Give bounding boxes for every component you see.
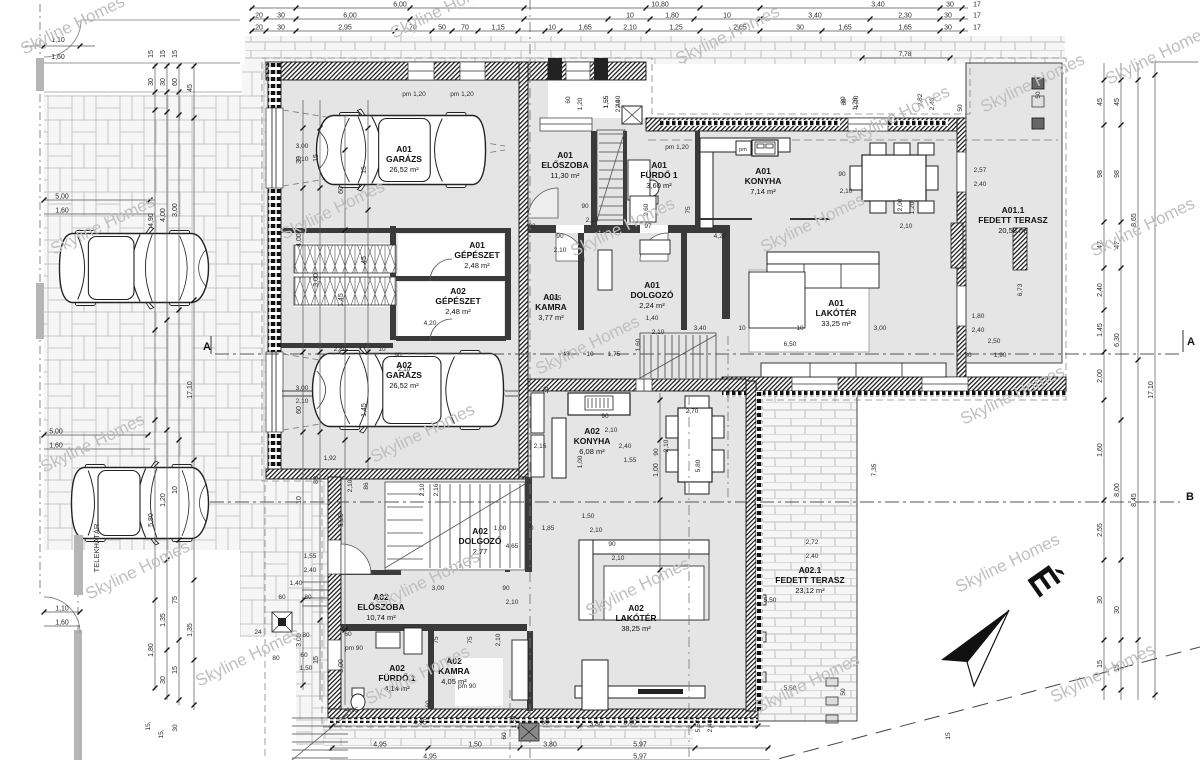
svg-text:15: 15 <box>160 50 167 58</box>
svg-text:1,20: 1,20 <box>160 493 167 507</box>
svg-text:50: 50 <box>957 104 964 112</box>
svg-text:75: 75 <box>685 206 692 214</box>
svg-text:5,80: 5,80 <box>695 459 702 472</box>
svg-text:15: 15 <box>148 50 155 58</box>
svg-text:45: 45 <box>1097 98 1104 106</box>
svg-text:KONYHA: KONYHA <box>745 176 782 186</box>
svg-text:2,50: 2,50 <box>988 338 1001 345</box>
svg-text:1,50: 1,50 <box>582 513 595 520</box>
svg-text:1,55: 1,55 <box>603 95 610 108</box>
svg-text:10,74 m²: 10,74 m² <box>366 613 396 622</box>
svg-text:1,45: 1,45 <box>549 295 562 302</box>
svg-text:26,52 m²: 26,52 m² <box>389 381 419 390</box>
svg-text:30: 30 <box>277 25 285 32</box>
svg-text:90: 90 <box>556 233 564 240</box>
svg-text:1,55: 1,55 <box>624 457 637 464</box>
svg-text:80: 80 <box>272 655 280 662</box>
svg-text:15: 15 <box>172 50 179 58</box>
svg-text:A01: A01 <box>755 166 771 176</box>
svg-text:75: 75 <box>172 596 179 604</box>
svg-text:30: 30 <box>964 352 972 359</box>
svg-text:2,10: 2,10 <box>605 427 618 434</box>
svg-text:5,57: 5,57 <box>695 719 702 732</box>
svg-text:1,50: 1,50 <box>511 715 518 728</box>
svg-text:1,00: 1,00 <box>653 463 660 477</box>
svg-text:1,60: 1,60 <box>635 338 642 351</box>
svg-text:60: 60 <box>565 96 572 104</box>
svg-text:50: 50 <box>1035 91 1042 99</box>
svg-text:2,10: 2,10 <box>554 247 567 254</box>
svg-text:1,65: 1,65 <box>898 25 912 32</box>
svg-text:3,00: 3,00 <box>338 659 345 673</box>
svg-text:A01: A01 <box>469 240 485 250</box>
svg-text:3,00: 3,00 <box>874 325 887 332</box>
svg-text:75: 75 <box>433 636 440 644</box>
svg-text:2,10: 2,10 <box>652 329 665 336</box>
svg-text:2,10: 2,10 <box>495 633 502 646</box>
svg-text:A02: A02 <box>450 286 466 296</box>
svg-text:1,20: 1,20 <box>909 201 916 214</box>
svg-text:1,40: 1,40 <box>646 315 659 322</box>
svg-text:pm 90: pm 90 <box>458 683 476 690</box>
svg-text:5,97: 5,97 <box>633 742 647 749</box>
svg-text:1,00: 1,00 <box>494 525 507 532</box>
svg-text:15: 15 <box>945 732 952 740</box>
svg-text:6,73: 6,73 <box>1017 283 1024 296</box>
svg-text:1,50: 1,50 <box>300 665 313 672</box>
svg-text:2,10: 2,10 <box>296 156 309 163</box>
svg-text:2,40: 2,40 <box>1097 283 1104 297</box>
svg-text:50: 50 <box>438 25 446 32</box>
svg-text:A: A <box>203 341 211 353</box>
svg-text:30: 30 <box>160 676 167 684</box>
svg-text:2,10: 2,10 <box>398 366 411 373</box>
svg-text:KONYHA: KONYHA <box>574 436 611 446</box>
svg-text:FÜRDŐ 1: FÜRDŐ 1 <box>640 169 678 180</box>
svg-text:60: 60 <box>172 78 179 86</box>
svg-text:17: 17 <box>973 25 981 32</box>
svg-text:4,90: 4,90 <box>148 213 155 227</box>
svg-text:80: 80 <box>302 632 310 639</box>
svg-text:1,65: 1,65 <box>578 25 592 32</box>
svg-text:3,00: 3,00 <box>296 143 309 150</box>
svg-text:6,50: 6,50 <box>784 341 797 348</box>
svg-text:8,00: 8,00 <box>1114 483 1121 497</box>
svg-text:30: 30 <box>1114 606 1121 614</box>
svg-text:1,35: 1,35 <box>160 613 167 627</box>
svg-text:1,92: 1,92 <box>324 455 337 462</box>
svg-text:1,55: 1,55 <box>304 553 317 560</box>
svg-text:17: 17 <box>973 13 981 20</box>
svg-text:7,78: 7,78 <box>899 51 912 58</box>
svg-text:1,20: 1,20 <box>577 97 584 110</box>
svg-text:1,45: 1,45 <box>338 293 345 307</box>
svg-text:45: 45 <box>187 84 194 92</box>
svg-text:LAKÓTÉR: LAKÓTÉR <box>615 612 656 623</box>
svg-text:3,80: 3,80 <box>623 720 637 727</box>
svg-text:FEDETT TERASZ: FEDETT TERASZ <box>775 575 844 585</box>
svg-text:30: 30 <box>946 2 954 9</box>
svg-text:30: 30 <box>160 78 167 86</box>
svg-text:A02: A02 <box>472 526 488 536</box>
svg-text:A01: A01 <box>396 144 412 154</box>
svg-text:A01: A01 <box>644 280 660 290</box>
svg-text:2,10: 2,10 <box>419 483 426 496</box>
svg-text:80: 80 <box>304 594 312 601</box>
svg-text:2,10: 2,10 <box>347 479 354 492</box>
svg-text:8,45: 8,45 <box>1131 493 1138 507</box>
svg-text:1,90: 1,90 <box>994 352 1007 359</box>
svg-text:2,10: 2,10 <box>296 398 309 405</box>
svg-text:26,52 m²: 26,52 m² <box>389 165 419 174</box>
svg-text:30: 30 <box>543 386 550 394</box>
svg-text:75: 75 <box>467 636 474 644</box>
svg-text:2,40: 2,40 <box>974 181 987 188</box>
svg-text:A01: A01 <box>557 150 573 160</box>
svg-text:60: 60 <box>541 720 549 727</box>
svg-text:6,08 m²: 6,08 m² <box>579 447 605 456</box>
svg-text:pm 90: pm 90 <box>345 645 363 652</box>
svg-text:A01: A01 <box>651 160 667 170</box>
svg-text:15,: 15, <box>145 721 152 730</box>
svg-text:7,14 m²: 7,14 m² <box>750 187 776 196</box>
svg-text:2,40: 2,40 <box>972 327 985 334</box>
svg-text:2,16: 2,16 <box>433 483 440 496</box>
svg-text:4,65: 4,65 <box>506 543 519 550</box>
svg-text:2,10: 2,10 <box>586 217 599 224</box>
svg-text:2,10: 2,10 <box>900 223 913 230</box>
svg-text:2,10: 2,10 <box>663 439 670 452</box>
svg-text:45: 45 <box>1114 98 1121 106</box>
svg-text:60: 60 <box>344 631 352 638</box>
svg-text:15: 15 <box>313 154 320 162</box>
svg-text:86: 86 <box>363 482 370 490</box>
svg-text:2,10: 2,10 <box>506 599 519 606</box>
svg-text:1,65: 1,65 <box>838 25 852 32</box>
svg-text:38,25 m²: 38,25 m² <box>621 624 651 633</box>
svg-text:90: 90 <box>502 585 510 592</box>
svg-text:4,95: 4,95 <box>413 720 427 727</box>
svg-text:1,25: 1,25 <box>669 25 683 32</box>
svg-text:98: 98 <box>1097 170 1104 178</box>
svg-text:3,00: 3,00 <box>313 273 320 287</box>
svg-text:1,45: 1,45 <box>361 403 368 417</box>
svg-text:4,95: 4,95 <box>346 707 359 714</box>
svg-text:DOLGOZÓ: DOLGOZÓ <box>459 535 502 546</box>
svg-text:B: B <box>1186 491 1194 503</box>
svg-text:20: 20 <box>255 13 263 20</box>
svg-text:ELŐSZOBA: ELŐSZOBA <box>541 159 588 170</box>
svg-text:60: 60 <box>501 732 508 740</box>
svg-text:3,40: 3,40 <box>694 325 707 332</box>
svg-text:10: 10 <box>796 325 804 332</box>
svg-text:30: 30 <box>944 13 952 20</box>
svg-text:60: 60 <box>425 700 432 708</box>
svg-text:10: 10 <box>172 486 179 494</box>
svg-text:3,80: 3,80 <box>590 721 603 728</box>
svg-text:4,95: 4,95 <box>423 754 437 761</box>
svg-text:1,60: 1,60 <box>55 208 69 215</box>
svg-text:60: 60 <box>840 96 847 104</box>
svg-text:90: 90 <box>394 352 402 359</box>
svg-text:3,00: 3,00 <box>172 203 179 217</box>
svg-text:80: 80 <box>313 476 320 484</box>
svg-text:90: 90 <box>581 203 589 210</box>
svg-text:5,97: 5,97 <box>633 754 647 761</box>
svg-text:1,85: 1,85 <box>542 525 555 532</box>
svg-text:3,80: 3,80 <box>543 742 557 749</box>
svg-text:2,40: 2,40 <box>304 567 317 574</box>
svg-text:10: 10 <box>626 13 634 20</box>
svg-text:A02: A02 <box>584 426 600 436</box>
svg-text:30: 30 <box>1097 596 1104 604</box>
svg-text:3,40: 3,40 <box>871 2 885 9</box>
svg-text:2,72: 2,72 <box>806 539 819 546</box>
svg-text:90: 90 <box>653 448 660 456</box>
svg-text:3,60 m²: 3,60 m² <box>646 181 672 190</box>
svg-text:KAMRA: KAMRA <box>535 302 567 312</box>
svg-text:pm: pm <box>739 147 747 153</box>
svg-text:10: 10 <box>723 13 731 20</box>
svg-text:5,00: 5,00 <box>55 194 69 201</box>
svg-text:2,48 m²: 2,48 m² <box>464 261 490 270</box>
svg-text:10: 10 <box>296 496 303 504</box>
svg-text:98: 98 <box>1114 170 1121 178</box>
svg-text:20: 20 <box>255 25 263 32</box>
svg-text:5,50: 5,50 <box>764 597 777 604</box>
svg-text:90: 90 <box>601 413 609 420</box>
svg-text:60: 60 <box>338 186 345 194</box>
svg-text:1,15: 1,15 <box>491 25 505 32</box>
svg-text:FEDETT TERASZ: FEDETT TERASZ <box>978 215 1047 225</box>
svg-text:24: 24 <box>254 629 262 636</box>
svg-text:10: 10 <box>548 25 556 32</box>
svg-text:90: 90 <box>838 171 846 178</box>
svg-text:1,80: 1,80 <box>148 643 155 657</box>
svg-text:30: 30 <box>944 25 952 32</box>
svg-text:1,60: 1,60 <box>1097 443 1104 457</box>
svg-text:10: 10 <box>526 525 534 532</box>
svg-text:30: 30 <box>277 13 285 20</box>
svg-text:23,12 m²: 23,12 m² <box>795 586 825 595</box>
svg-text:pm 1,20: pm 1,20 <box>450 91 474 98</box>
svg-text:5,00: 5,00 <box>49 429 63 436</box>
svg-text:2,00: 2,00 <box>1097 369 1104 383</box>
svg-text:17,10: 17,10 <box>1148 381 1155 399</box>
svg-text:1,45: 1,45 <box>1097 323 1104 337</box>
svg-text:2,48 m²: 2,48 m² <box>445 307 471 316</box>
svg-text:10,80: 10,80 <box>651 2 669 9</box>
svg-text:A: A <box>1187 336 1195 348</box>
svg-text:2,40: 2,40 <box>707 719 714 732</box>
svg-text:2,40: 2,40 <box>619 443 632 450</box>
svg-text:4,20: 4,20 <box>714 233 727 240</box>
svg-text:pm 1,20: pm 1,20 <box>402 91 426 98</box>
svg-text:15: 15 <box>172 666 179 674</box>
svg-text:30: 30 <box>172 724 179 732</box>
svg-text:33,25 m²: 33,25 m² <box>821 319 851 328</box>
svg-text:93: 93 <box>528 223 536 230</box>
svg-text:2,40: 2,40 <box>806 553 819 560</box>
svg-text:45: 45 <box>361 256 368 264</box>
svg-text:A02: A02 <box>628 603 644 613</box>
svg-text:15: 15 <box>361 166 368 174</box>
svg-text:3,77 m²: 3,77 m² <box>538 313 564 322</box>
svg-text:2,40: 2,40 <box>615 99 622 112</box>
svg-text:60: 60 <box>278 594 286 601</box>
svg-text:30: 30 <box>148 78 155 86</box>
svg-text:2,10: 2,10 <box>590 527 603 534</box>
svg-text:60: 60 <box>296 406 303 414</box>
svg-text:7,35: 7,35 <box>871 463 878 476</box>
svg-text:A01: A01 <box>828 298 844 308</box>
svg-text:LAKÓTÉR: LAKÓTÉR <box>815 307 856 318</box>
svg-text:pm 1,20: pm 1,20 <box>665 144 689 151</box>
svg-text:1,80: 1,80 <box>665 13 679 20</box>
svg-text:GARÁZS: GARÁZS <box>386 154 422 164</box>
svg-text:60: 60 <box>300 652 308 659</box>
svg-text:1,80: 1,80 <box>972 313 985 320</box>
svg-text:GÉPÉSZET: GÉPÉSZET <box>454 250 500 260</box>
svg-text:90: 90 <box>608 541 616 548</box>
svg-text:50: 50 <box>840 688 847 696</box>
svg-text:2,15: 2,15 <box>534 443 547 450</box>
svg-text:2,95: 2,95 <box>338 25 352 32</box>
svg-text:70: 70 <box>461 25 469 32</box>
svg-text:GÉPÉSZET: GÉPÉSZET <box>435 296 481 306</box>
svg-text:5,80: 5,80 <box>148 513 155 527</box>
svg-text:1,20: 1,20 <box>852 97 859 110</box>
svg-text:6,00: 6,00 <box>393 2 407 9</box>
svg-text:6,00: 6,00 <box>343 13 357 20</box>
svg-text:15: 15 <box>313 656 320 664</box>
svg-text:1,40: 1,40 <box>290 580 303 587</box>
svg-text:17,10: 17,10 <box>187 381 194 399</box>
svg-text:2,10: 2,10 <box>623 25 637 32</box>
svg-text:2,57: 2,57 <box>974 167 987 174</box>
svg-text:3,00: 3,00 <box>296 385 309 392</box>
svg-text:A01.1: A01.1 <box>1002 205 1025 215</box>
svg-text:1,50: 1,50 <box>468 742 482 749</box>
svg-text:6,30: 6,30 <box>1114 333 1121 347</box>
svg-text:4,00: 4,00 <box>160 208 167 222</box>
svg-text:2,24 m²: 2,24 m² <box>639 301 665 310</box>
svg-text:2,30: 2,30 <box>898 13 912 20</box>
svg-text:TELEKHATÁR: TELEKHATÁR <box>92 523 101 572</box>
svg-text:10: 10 <box>738 325 746 332</box>
svg-text:A02.1: A02.1 <box>799 565 822 575</box>
svg-text:1,10: 1,10 <box>55 606 69 613</box>
svg-text:DOLGOZÓ: DOLGOZÓ <box>631 289 674 300</box>
svg-text:20,58 m²: 20,58 m² <box>998 226 1028 235</box>
svg-text:1,60: 1,60 <box>55 620 69 627</box>
svg-text:2,80: 2,80 <box>334 346 347 353</box>
svg-text:1,00: 1,00 <box>577 455 584 468</box>
svg-text:2,00: 2,00 <box>897 198 904 211</box>
svg-text:1,35: 1,35 <box>187 623 194 637</box>
svg-text:1,75: 1,75 <box>608 351 621 358</box>
svg-text:1,20: 1,20 <box>338 513 345 527</box>
svg-text:2,55: 2,55 <box>1097 523 1104 537</box>
svg-text:2,70: 2,70 <box>686 408 699 415</box>
svg-text:17: 17 <box>973 2 981 9</box>
svg-text:30: 30 <box>796 25 804 32</box>
svg-text:4,95: 4,95 <box>373 742 387 749</box>
svg-text:1,60: 1,60 <box>51 54 65 61</box>
svg-text:15,: 15, <box>158 729 165 738</box>
svg-text:10: 10 <box>378 346 386 353</box>
svg-text:2,10: 2,10 <box>612 555 625 562</box>
svg-text:11,30 m²: 11,30 m² <box>550 171 580 180</box>
svg-text:4,20: 4,20 <box>424 320 437 327</box>
svg-text:3,40: 3,40 <box>808 13 822 20</box>
